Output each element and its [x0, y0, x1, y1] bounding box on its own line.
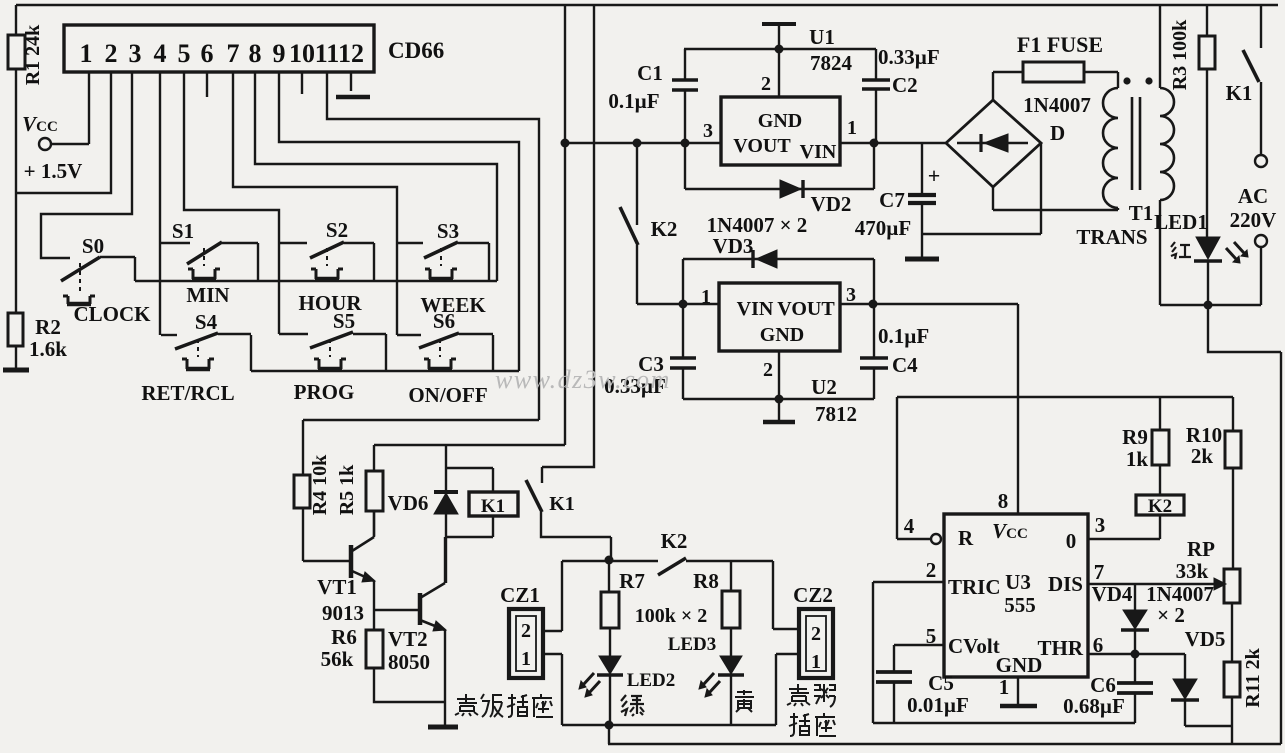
svg-text:7: 7 [227, 39, 240, 68]
svg-text:8050: 8050 [388, 650, 430, 674]
terminal AC lower [1255, 235, 1267, 247]
svg-text:7824: 7824 [810, 51, 853, 75]
svg-text:PROG: PROG [294, 380, 355, 404]
wire pin7 column to S3/S6 [233, 72, 397, 335]
svg-text:R2: R2 [35, 315, 61, 339]
socket CZ2 [793, 583, 833, 678]
svg-text:+: + [928, 163, 941, 188]
wire pin2 TRIC loop [873, 582, 944, 723]
svg-text:1.6k: 1.6k [29, 337, 67, 361]
relay coil K1 box [446, 468, 518, 537]
svg-text:555: 555 [1004, 593, 1036, 617]
wire sockets bottom row [562, 721, 776, 730]
wire VD5/R11 bottom join [1185, 726, 1232, 744]
resistor R7 100k [601, 560, 645, 656]
svg-text:C7: C7 [879, 188, 905, 212]
svg-text:0.1µF: 0.1µF [608, 89, 659, 113]
svg-text:VD4: VD4 [1092, 582, 1133, 606]
diode VD6 flywheel [388, 445, 458, 583]
wire +12V down to pin8 [1017, 304, 1019, 514]
svg-text:R: R [958, 526, 974, 550]
svg-text:K2: K2 [651, 217, 678, 241]
svg-text:VD6: VD6 [388, 491, 429, 515]
wire bridge to transformer secondary bottom [993, 187, 1118, 210]
svg-text:CLOCK: CLOCK [73, 302, 151, 326]
svg-text:MIN: MIN [186, 283, 229, 307]
svg-text:F1 FUSE: F1 FUSE [1017, 32, 1103, 57]
wire AC to primary bottom rail [1160, 247, 1261, 305]
svg-text:C2: C2 [892, 73, 918, 97]
node bus1 S1-S3 common [135, 280, 497, 282]
svg-text:1k: 1k [1126, 447, 1149, 471]
wire +24V rail [561, 139, 947, 148]
svg-text:R8: R8 [693, 569, 719, 593]
IC CD66 keyboard/clock chip [64, 25, 444, 72]
svg-text:7812: 7812 [815, 402, 857, 426]
svg-text:VIN: VIN [800, 141, 837, 163]
transistor VT2 8050 [388, 537, 446, 726]
wire K2 branch to CZ2 [773, 561, 798, 629]
svg-text:VD3: VD3 [713, 234, 754, 258]
svg-text:R5 1k: R5 1k [336, 464, 358, 515]
svg-text:3: 3 [129, 39, 142, 68]
svg-text:11: 11 [315, 39, 340, 68]
resistor R11 2k [1224, 647, 1264, 726]
regulator U1 7824 [703, 25, 857, 165]
capacitor C3 0.33uF [604, 304, 696, 399]
svg-text:S6: S6 [433, 309, 455, 333]
LED2 green [597, 656, 675, 725]
svg-text:2: 2 [761, 73, 771, 95]
node K1 to sockets junction [605, 556, 614, 565]
switch S2 HOUR [279, 218, 374, 315]
ground at pin12 [336, 72, 370, 97]
svg-text:VIN: VIN [737, 298, 774, 320]
label T1 TRANS [1076, 201, 1153, 249]
wire K2 to U2 VIN [637, 300, 719, 309]
transformer T1 core [1132, 97, 1140, 190]
svg-text:S1: S1 [172, 219, 194, 243]
svg-text:1N4007: 1N4007 [1023, 93, 1091, 117]
svg-text:0.01µF: 0.01µF [907, 693, 969, 717]
svg-text:RET/RCL: RET/RCL [141, 381, 234, 405]
svg-text:0.33µF: 0.33µF [878, 45, 940, 69]
svg-text:K1: K1 [1226, 81, 1253, 105]
ground 555 pin1 [1000, 677, 1037, 706]
wire pin2 to R1/R2 junction [16, 72, 111, 193]
svg-text:LED3: LED3 [668, 634, 717, 655]
label AC 220V [1230, 184, 1277, 232]
svg-text:VOUT: VOUT [733, 135, 791, 157]
svg-text:S2: S2 [326, 218, 348, 242]
wire pin10 stub [301, 72, 303, 94]
svg-text:S0: S0 [82, 234, 104, 258]
svg-text:U1: U1 [809, 25, 835, 49]
watermark [495, 365, 671, 394]
svg-text:GND: GND [760, 324, 804, 346]
svg-text:1: 1 [80, 39, 93, 68]
svg-text:9: 9 [273, 39, 286, 68]
svg-text:LED2: LED2 [627, 670, 676, 691]
wire pin1 to Vcc [88, 72, 90, 144]
switch S4 RET/RCL [141, 310, 251, 405]
svg-text:CD66: CD66 [388, 38, 444, 63]
svg-text:K1: K1 [549, 493, 575, 515]
svg-text:R1 24k: R1 24k [22, 24, 44, 85]
node bus2 S4-S6 common [251, 370, 519, 372]
svg-text:4: 4 [154, 39, 167, 68]
svg-text:56k: 56k [321, 647, 354, 671]
svg-text:K1: K1 [481, 496, 505, 517]
svg-text:TRANS: TRANS [1076, 225, 1147, 249]
ground above U1 pin2 [762, 24, 796, 97]
label red hanzi [1171, 242, 1191, 259]
svg-text:VT2: VT2 [388, 627, 428, 651]
svg-text:GND: GND [758, 110, 802, 132]
wire bridge minus to C7/ground [922, 143, 1041, 234]
wire pin4 reset loop [897, 397, 941, 544]
wire CZ2 pin1 down [776, 654, 798, 725]
diode VD5 [1171, 627, 1225, 726]
resistor R2 1.6k [8, 313, 67, 361]
wire R1 to R2 left rail [15, 193, 17, 313]
svg-text:R6: R6 [331, 625, 357, 649]
svg-text:+ 1.5V: + 1.5V [24, 159, 83, 183]
diode VD2 reverse protection [685, 143, 874, 216]
svg-text:× 2: × 2 [1157, 603, 1185, 627]
wire CZ1 pin2 feed [543, 561, 609, 631]
svg-text:470µF: 470µF [855, 216, 911, 240]
switch S1 MIN [161, 219, 258, 307]
wire +12V rail to R9/R10 [897, 396, 1233, 398]
wire bottom rail [608, 725, 1281, 744]
capacitor C5 0.01uF [876, 645, 969, 723]
svg-text:33k: 33k [1176, 559, 1209, 583]
ground below R2 [3, 346, 29, 370]
svg-text:CZ2: CZ2 [793, 583, 833, 607]
svg-text:K2: K2 [661, 529, 688, 553]
transformer T1 primary winding [1160, 5, 1174, 305]
svg-text:2: 2 [763, 359, 773, 381]
ground VT2 emitter [428, 725, 458, 730]
wire RP to R11 [1231, 603, 1233, 662]
transistor VT1 9013 [303, 511, 375, 630]
capacitor C7 470uF electrolytic [855, 143, 940, 258]
label green hanzi [621, 695, 644, 716]
svg-text:1: 1 [701, 286, 711, 308]
capacitor C2 0.33uF [862, 45, 940, 143]
svg-text:VCC: VCC [992, 519, 1028, 543]
svg-text:VOUT: VOUT [777, 298, 835, 320]
resistor R3 100k [1169, 5, 1215, 237]
switch K1 mains [1226, 5, 1261, 155]
svg-text:7: 7 [1094, 560, 1105, 584]
svg-text:CZ1: CZ1 [500, 583, 540, 607]
wire CZ1 pin1 to bottom row [543, 654, 562, 725]
svg-text:2: 2 [926, 558, 937, 582]
wire C1/C2 top rail [684, 48, 876, 50]
LED2 light arrows [579, 673, 600, 697]
svg-text:VD2: VD2 [811, 192, 852, 216]
svg-text:U2: U2 [811, 375, 837, 399]
svg-text:2: 2 [521, 620, 531, 642]
wire +V to R5/K1 coil top [374, 5, 565, 445]
svg-text:GND: GND [996, 653, 1043, 677]
resistor R8 100k [693, 561, 740, 656]
svg-text:8: 8 [998, 489, 1009, 513]
svg-text:10: 10 [289, 39, 315, 68]
transformer polarity dots [1123, 77, 1152, 84]
wire pin3 to S0 [41, 72, 132, 258]
label cooking-rice socket hanzi [455, 694, 553, 717]
switch S6 ON/OFF [397, 309, 493, 407]
LED1 light arrows [1226, 242, 1248, 263]
svg-text:D: D [1050, 121, 1065, 145]
wire pin6 stub [206, 72, 208, 97]
wire bus to R4 top [303, 419, 539, 421]
resistor R1 24k [8, 5, 44, 193]
wire pin9 wrap to S-row bus2 [279, 72, 519, 371]
resistor R9 1k [1122, 398, 1169, 495]
svg-text:R4 10k: R4 10k [309, 454, 331, 515]
capacitor C6 0.68uF [1063, 654, 1153, 723]
ground below U2 [763, 420, 795, 425]
terminal AC upper [1255, 155, 1267, 167]
svg-text:100k × 2: 100k × 2 [635, 605, 708, 627]
IC U3 555 timer [926, 489, 1106, 699]
ground below C7 [905, 257, 939, 262]
label cooking-porridge socket hanzi [787, 684, 836, 736]
svg-text:R3 100k: R3 100k [1169, 19, 1191, 90]
svg-text:3: 3 [703, 120, 713, 142]
switch K2 (relay contact) upper [620, 139, 677, 305]
LED1 red indicator [1154, 210, 1222, 305]
svg-text:12: 12 [338, 39, 364, 68]
svg-text:C5: C5 [928, 671, 954, 695]
bridge rectifier D 1N4007 [946, 93, 1091, 187]
label 100k x 2 [635, 605, 708, 627]
svg-text:R7: R7 [619, 569, 645, 593]
resistor R4 10k [294, 420, 331, 561]
fuse F1 [993, 32, 1118, 100]
capacitor C4 0.1uF [860, 304, 929, 399]
label yellow hanzi [735, 690, 754, 712]
LED3 yellow [668, 634, 744, 725]
resistor R6 56k [321, 625, 445, 702]
transformer T1 secondary winding [1103, 72, 1118, 210]
resistor R5 1k [336, 445, 383, 536]
svg-text:K2: K2 [1148, 496, 1172, 517]
svg-text:ON/OFF: ON/OFF [408, 383, 487, 407]
switch S3 WEEK [397, 219, 489, 317]
svg-text:C4: C4 [892, 353, 918, 377]
svg-text:U3: U3 [1005, 570, 1031, 594]
regulator U2 7812 [701, 283, 857, 426]
svg-text:8: 8 [249, 39, 262, 68]
socket CZ1 [500, 583, 543, 678]
switch K1 contact (relay) [526, 480, 611, 558]
svg-text:www.dz3w.com: www.dz3w.com [495, 365, 671, 394]
diode VD3 bypass [683, 213, 874, 304]
CD66 pin numbers 1-12 [80, 39, 365, 68]
svg-text:2k: 2k [1191, 444, 1214, 468]
svg-text:CVolt: CVolt [948, 634, 1000, 658]
wire pin6 THR to VD5 [1088, 650, 1185, 659]
svg-text:3: 3 [1095, 513, 1106, 537]
svg-text:AC: AC [1238, 184, 1268, 208]
svg-text:9013: 9013 [322, 601, 364, 625]
wire pin3 output to K2 coil [1088, 515, 1160, 539]
wire pin8 wrap to S-row bus1 [255, 72, 497, 281]
svg-text:S4: S4 [195, 310, 218, 334]
switch K2 (relay contact) lower [609, 529, 773, 575]
svg-text:1: 1 [999, 675, 1010, 699]
wire pin4 column to S1/S4 [159, 72, 161, 335]
wire +V rail drop to K1 contact [542, 5, 594, 483]
diode VD4 [1092, 582, 1214, 654]
svg-text:T1: T1 [1129, 201, 1154, 225]
svg-text:C1: C1 [637, 61, 663, 85]
wire C3-C4 ground rail [683, 351, 874, 421]
svg-text:S3: S3 [437, 219, 459, 243]
wire pin11 wrap to R4 line [327, 72, 539, 420]
wire top border +V rail [16, 4, 1278, 7]
svg-text:THR: THR [1037, 636, 1083, 660]
svg-text:DIS: DIS [1048, 572, 1083, 596]
wire C5/C6 common rail [873, 722, 1135, 724]
svg-text:LED1: LED1 [1154, 210, 1208, 234]
svg-text:VD5: VD5 [1185, 627, 1226, 651]
svg-text:1N4007 × 2: 1N4007 × 2 [707, 213, 808, 237]
resistor R10 2k [1186, 397, 1241, 569]
svg-text:VT1: VT1 [317, 575, 357, 599]
potentiometer RP 33k [1088, 537, 1240, 603]
svg-text:0.1µF: 0.1µF [878, 324, 929, 348]
svg-text:1: 1 [811, 651, 821, 673]
svg-text:5: 5 [178, 39, 191, 68]
relay coil K2 box [1136, 495, 1184, 517]
svg-text:0.68µF: 0.68µF [1063, 694, 1125, 718]
capacitor C1 0.1uF [608, 49, 698, 143]
svg-text:1: 1 [847, 117, 857, 139]
switch S0 CLOCK [61, 234, 151, 326]
wire pin5 column to S2/S5 [184, 72, 279, 334]
svg-text:3: 3 [846, 284, 856, 306]
wire LED1 branch to bottom right rail [1204, 301, 1282, 745]
svg-text:2: 2 [105, 39, 118, 68]
svg-text:2: 2 [811, 623, 821, 645]
svg-text:0: 0 [1066, 529, 1077, 553]
battery terminal Vcc +1.5V [22, 112, 89, 183]
wire VT1 emitter to VT2 base [374, 609, 420, 611]
svg-text:4: 4 [904, 514, 915, 538]
svg-text:1: 1 [521, 648, 531, 670]
svg-text:R9: R9 [1122, 425, 1148, 449]
LED3 light arrows [699, 673, 720, 697]
wire U2 VOUT +12V [840, 300, 1018, 309]
svg-text:VCC: VCC [22, 112, 58, 136]
svg-text:S5: S5 [333, 309, 355, 333]
svg-text:6: 6 [201, 39, 214, 68]
svg-text:RP: RP [1187, 537, 1215, 561]
svg-text:R11 2k: R11 2k [1242, 647, 1264, 707]
svg-text:220V: 220V [1230, 208, 1277, 232]
switch S5 PROG [279, 309, 386, 404]
svg-text:TRIC: TRIC [948, 575, 1001, 599]
